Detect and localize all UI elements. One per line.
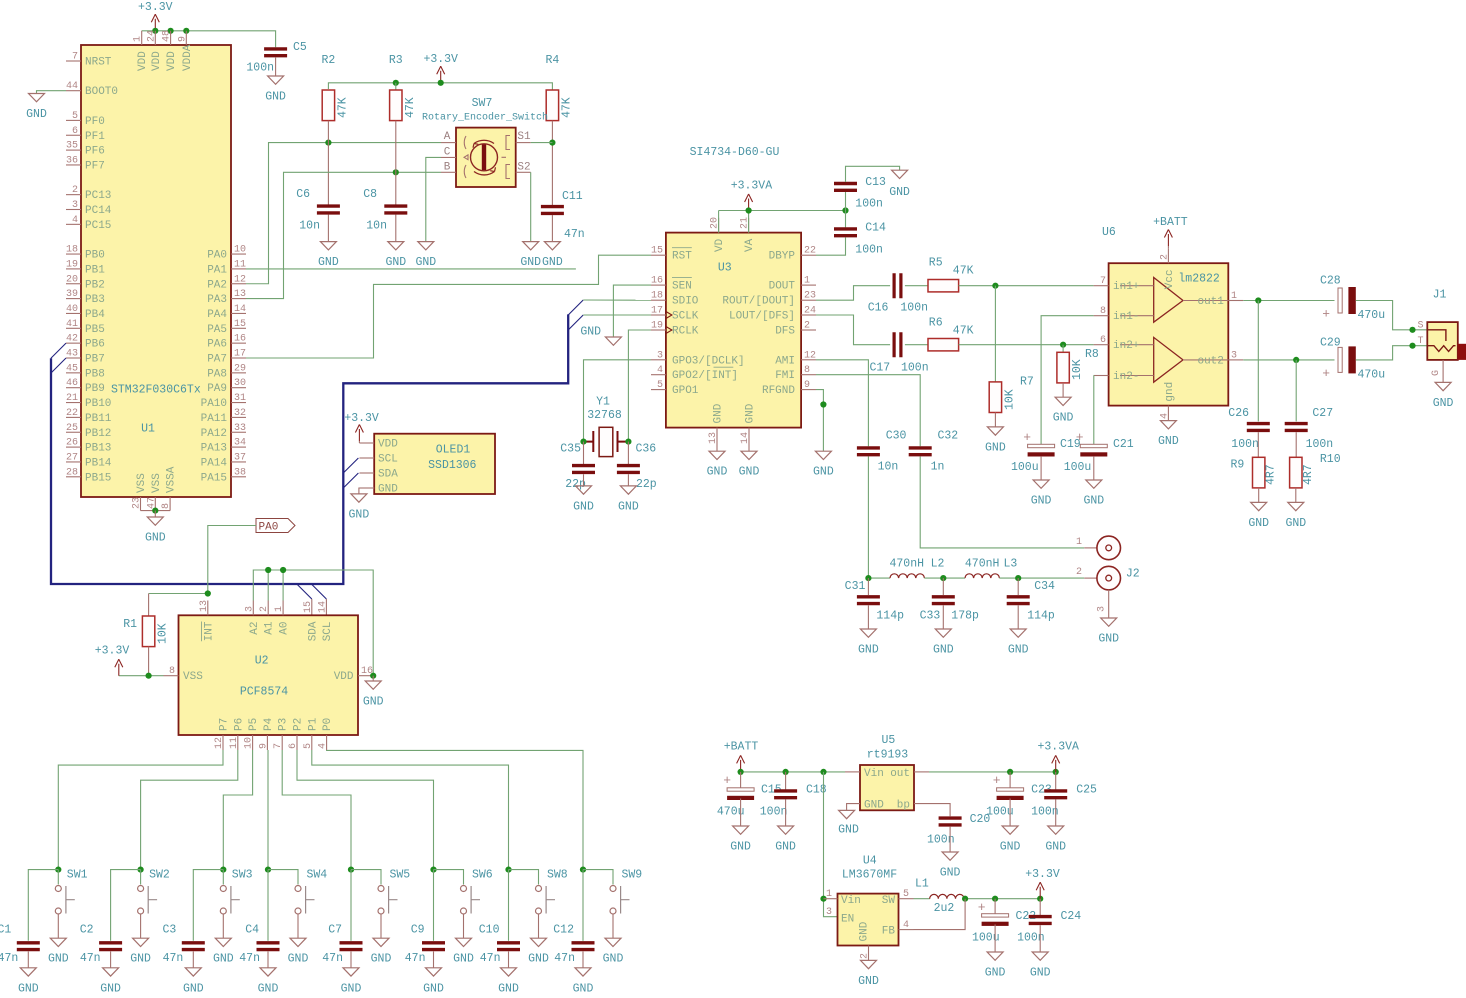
svg-text:+3.3V: +3.3V	[138, 1, 173, 14]
svg-text:B: B	[444, 162, 451, 174]
svg-text:LM3670MF: LM3670MF	[842, 869, 897, 882]
svg-text:SW7: SW7	[472, 97, 493, 110]
U1 pin 21 PB10 (left)	[66, 402, 81, 404]
junction	[625, 439, 631, 445]
svg-text:L3: L3	[1004, 558, 1018, 571]
ground (C24)	[1032, 952, 1048, 960]
svg-text:SW: SW	[882, 895, 896, 907]
svg-text:GND: GND	[498, 982, 519, 995]
svg-text:2: 2	[804, 321, 810, 332]
svg-text:A: A	[444, 131, 451, 143]
svg-text:C32: C32	[938, 429, 959, 442]
svg-text:PF0: PF0	[85, 116, 105, 128]
svg-text:lm2822: lm2822	[1178, 273, 1220, 286]
svg-text:GND: GND	[520, 256, 541, 269]
power flag +3.3VA (U5 out)	[1052, 755, 1060, 772]
svg-text:+: +	[978, 900, 986, 915]
svg-text:100n: 100n	[1031, 805, 1059, 818]
svg-text:PF1: PF1	[85, 131, 105, 143]
U4 pin 4 FB	[899, 929, 914, 931]
svg-text:PA4: PA4	[207, 309, 227, 321]
svg-text:BOOT0: BOOT0	[85, 86, 118, 98]
svg-text:47n: 47n	[564, 228, 585, 241]
svg-text:GND: GND	[603, 953, 624, 966]
power flag +BATT (U5)	[741, 771, 845, 773]
U2 pin 11 P6 (bottom)	[237, 735, 239, 750]
svg-text:GND: GND	[145, 532, 166, 545]
OLED1 pin GND	[359, 487, 374, 489]
resistor R10	[1295, 432, 1297, 457]
svg-text:22: 22	[804, 246, 816, 257]
svg-text:29: 29	[234, 363, 246, 374]
svg-text:23: 23	[132, 497, 143, 509]
svg-text:GND: GND	[889, 186, 910, 199]
svg-text:+: +	[1023, 430, 1031, 445]
wire RCLK to crystal right	[628, 330, 651, 442]
junction	[1037, 896, 1043, 902]
ground (BOOT0)	[37, 91, 67, 94]
svg-text:C10: C10	[479, 924, 500, 937]
svg-text:9: 9	[804, 380, 810, 391]
svg-text:10n: 10n	[299, 220, 320, 233]
junction	[168, 28, 174, 34]
svg-text:G: G	[1431, 370, 1442, 376]
svg-text:C26: C26	[1228, 407, 1249, 420]
svg-text:SW8: SW8	[547, 869, 568, 882]
svg-text:1: 1	[1231, 291, 1237, 302]
svg-text:SW1: SW1	[67, 869, 88, 882]
wire U3 GND13	[716, 443, 718, 452]
svg-text:Rotary_Encoder_Switch: Rotary_Encoder_Switch	[422, 112, 548, 124]
capacitor C8	[384, 206, 407, 213]
svg-text:SW6: SW6	[472, 869, 493, 882]
U3 pin 20 VD (top)	[718, 218, 720, 233]
svg-text:100n: 100n	[760, 805, 788, 818]
svg-text:8: 8	[804, 365, 810, 376]
junction	[152, 28, 158, 34]
capacitor C26	[1257, 301, 1259, 422]
svg-text:43: 43	[66, 349, 78, 360]
U3 pin 3 GPO3/[DCLK] (left)	[651, 359, 666, 361]
SW7 pin A	[441, 142, 456, 144]
U6 pin in2-	[1094, 375, 1109, 377]
ground (SW1)	[50, 938, 66, 946]
svg-text:47n: 47n	[80, 952, 101, 965]
svg-text:VA: VA	[744, 238, 756, 252]
capacitor C9	[422, 943, 445, 950]
U1 pin 28 PB15 (left)	[66, 476, 81, 478]
svg-text:25: 25	[66, 423, 78, 434]
svg-text:U3: U3	[718, 261, 732, 274]
wire +3.3V rail R2-R4	[328, 83, 552, 90]
svg-text:RFGND: RFGND	[762, 385, 795, 397]
svg-text:44: 44	[66, 81, 78, 92]
wire R5 to U6 in1+	[959, 285, 1094, 287]
svg-text:3: 3	[1097, 606, 1108, 612]
svg-text:GND: GND	[213, 953, 234, 966]
U1 pin 30 PA9 (right)	[231, 387, 246, 389]
U2 pin 4 P0 (bottom)	[326, 735, 328, 750]
svg-text:10: 10	[234, 245, 246, 256]
svg-text:4: 4	[318, 743, 329, 749]
U1 pin 31 PA10 (right)	[231, 402, 246, 404]
ground (C34)	[1010, 629, 1026, 637]
regulator U4 box	[838, 894, 899, 946]
svg-text:C24: C24	[1061, 910, 1082, 923]
svg-text:+3.3V: +3.3V	[423, 53, 458, 66]
svg-text:+3.3VA: +3.3VA	[1037, 741, 1079, 754]
capacitor C4	[257, 943, 280, 950]
svg-text:PC15: PC15	[85, 220, 111, 232]
svg-text:PA10: PA10	[201, 398, 227, 410]
junction	[280, 567, 286, 573]
svg-text:R3: R3	[389, 54, 403, 67]
capacitor C13	[845, 192, 847, 227]
svg-text:GND: GND	[1098, 633, 1119, 646]
U1 pin 44 BOOT0 (left)	[66, 90, 81, 92]
power flag +3.3V (rotary)	[437, 66, 445, 83]
svg-text:13: 13	[708, 432, 719, 444]
U1 pin 47 VSS (bottom)	[154, 497, 156, 511]
capacitor C14	[834, 229, 857, 236]
U1 pin 25 PB12 (left)	[66, 431, 81, 433]
svg-text:1: 1	[274, 606, 285, 612]
capacitor C11	[541, 207, 564, 214]
ground (OLED)	[359, 488, 374, 494]
svg-text:16: 16	[234, 334, 246, 345]
svg-text:C36: C36	[636, 443, 657, 456]
wire U2 P2 to switch column	[297, 750, 434, 870]
U1 pin 35 PF6 (left)	[66, 149, 81, 151]
svg-text:C17: C17	[870, 362, 891, 375]
wire C29 to J1 T	[1356, 346, 1428, 360]
svg-text:S: S	[1417, 320, 1423, 331]
svg-text:A0: A0	[279, 621, 291, 634]
wire U6 in1- to C19	[1041, 316, 1094, 445]
wire SW2 node to C2	[111, 870, 141, 941]
U2 pin 8 VSS	[164, 675, 179, 677]
pushbutton SW4	[295, 886, 315, 915]
U1 pin 46 PB9 (left)	[66, 387, 81, 389]
svg-text:PB8: PB8	[85, 368, 105, 380]
U1 pin 7 NRST (left)	[66, 60, 81, 62]
svg-text:C7: C7	[328, 924, 342, 937]
svg-text:4: 4	[1159, 413, 1170, 419]
svg-text:+BATT: +BATT	[724, 741, 759, 754]
svg-text:2: 2	[72, 185, 78, 196]
U2 pin 10 P5 (bottom)	[252, 735, 254, 750]
svg-text:47K: 47K	[337, 97, 350, 118]
svg-text:C13: C13	[865, 176, 886, 189]
wire out2 to C29/J1	[1243, 359, 1334, 361]
capacitor C15 (polarized)	[740, 772, 742, 788]
svg-text:VSS: VSS	[183, 671, 203, 683]
U3 pin 1 DOUT (right)	[801, 284, 816, 286]
capacitor C29 (polarized)	[1338, 347, 1342, 372]
pushbutton SW2	[138, 886, 158, 915]
wire SW6 node to switch	[434, 870, 464, 885]
ground (C6)	[320, 242, 336, 250]
svg-text:SDIO: SDIO	[672, 296, 699, 308]
svg-text:AMI: AMI	[775, 355, 795, 367]
svg-text:47K: 47K	[404, 97, 417, 118]
pushbutton SW1	[55, 886, 75, 915]
svg-text:10: 10	[244, 737, 255, 749]
capacitor C23 (polarized)	[1009, 772, 1011, 788]
svg-text:SW2: SW2	[149, 869, 170, 882]
U3 pin 2 DFS (right)	[801, 329, 816, 331]
svg-text:GND: GND	[580, 325, 601, 338]
svg-text:20: 20	[66, 274, 78, 285]
svg-text:P3: P3	[278, 718, 290, 731]
svg-text:U5: U5	[881, 734, 895, 747]
svg-text:GND: GND	[618, 500, 639, 513]
wire +BATT branch to U4	[824, 772, 838, 917]
svg-text:3: 3	[1231, 350, 1237, 361]
svg-text:C25: C25	[1076, 783, 1097, 796]
wire DBYP to C14	[816, 238, 846, 256]
svg-text:2: 2	[259, 606, 270, 612]
U1 pin 40 PB4 (left)	[66, 312, 81, 314]
svg-text:46: 46	[66, 378, 78, 389]
svg-text:1: 1	[804, 276, 810, 287]
ground (RFGND)	[815, 451, 831, 459]
U1 pin 27 PB14 (left)	[66, 461, 81, 463]
svg-text:C14: C14	[865, 221, 886, 234]
svg-text:in1-: in1-	[1113, 311, 1139, 323]
svg-text:+3.3V: +3.3V	[95, 645, 130, 658]
svg-text:17: 17	[651, 306, 663, 317]
svg-text:3: 3	[826, 907, 832, 918]
svg-text:GND: GND	[940, 867, 961, 880]
junction	[1255, 297, 1261, 303]
svg-text:2u2: 2u2	[934, 902, 955, 915]
svg-text:47n: 47n	[163, 952, 184, 965]
svg-text:PB3: PB3	[85, 294, 105, 306]
svg-text:100n: 100n	[246, 62, 274, 75]
U1 pin 24 VDD (top)	[154, 31, 156, 45]
svg-text:48: 48	[162, 30, 173, 42]
junction	[348, 867, 354, 873]
svg-text:+: +	[1076, 430, 1084, 445]
wire PA3 to R3/SW7-B net	[246, 172, 441, 298]
svg-text:10n: 10n	[366, 220, 387, 233]
ground (C11)	[544, 242, 560, 250]
svg-text:C9: C9	[411, 924, 425, 937]
svg-text:GND: GND	[933, 644, 954, 657]
svg-text:P1: P1	[307, 717, 319, 731]
svg-text:GND: GND	[730, 841, 751, 854]
U3 pin 23 ROUT/[DOUT] (right)	[801, 299, 816, 301]
bus entry U2 SCL	[311, 584, 326, 599]
svg-text:4: 4	[903, 920, 909, 931]
svg-text:10K: 10K	[157, 623, 170, 644]
svg-text:6: 6	[288, 743, 299, 749]
svg-text:C34: C34	[1034, 580, 1055, 593]
svg-text:J1: J1	[1433, 289, 1447, 302]
svg-text:2: 2	[860, 953, 871, 959]
svg-text:PF6: PF6	[85, 146, 105, 158]
svg-text:GND: GND	[739, 466, 760, 479]
svg-text:+BATT: +BATT	[1153, 216, 1188, 229]
svg-text:PC14: PC14	[85, 205, 112, 217]
ground (R9)	[1251, 502, 1267, 510]
svg-text:6: 6	[1100, 335, 1106, 346]
op-amp triangle 2	[1154, 337, 1183, 382]
svg-text:33: 33	[234, 423, 246, 434]
svg-text:Vin: Vin	[864, 768, 884, 780]
svg-text:in2+: in2+	[1113, 340, 1139, 352]
inductor L2	[890, 574, 924, 578]
svg-text:+3.3VA: +3.3VA	[731, 179, 773, 192]
capacitor C1	[17, 943, 40, 950]
U1 pin 6 PF1 (left)	[66, 134, 81, 136]
svg-text:37: 37	[234, 452, 246, 463]
junction	[146, 673, 152, 679]
svg-text:47n: 47n	[554, 952, 575, 965]
svg-text:14: 14	[740, 432, 751, 444]
svg-text:PB5: PB5	[85, 324, 105, 336]
svg-text:47n: 47n	[405, 952, 426, 965]
svg-text:35: 35	[66, 141, 78, 152]
svg-text:Vin: Vin	[841, 895, 861, 907]
svg-text:GND: GND	[1053, 412, 1074, 425]
svg-text:100n: 100n	[1306, 438, 1334, 451]
svg-text:32768: 32768	[587, 409, 622, 422]
svg-text:GND: GND	[713, 403, 725, 423]
svg-text:C35: C35	[560, 443, 581, 456]
svg-text:gnd: gnd	[1164, 382, 1176, 402]
svg-text:C5: C5	[293, 41, 307, 54]
bus entry OLED SCL	[343, 458, 358, 473]
svg-text:SCL: SCL	[322, 621, 334, 641]
wire SW3 node to C3	[193, 870, 223, 941]
svg-text:GND: GND	[18, 982, 39, 995]
U6 pin 2 Vcc (top)	[1167, 248, 1169, 263]
svg-text:A2: A2	[249, 621, 261, 634]
U3 pin 12 AMI (right)	[801, 359, 816, 361]
svg-text:27: 27	[66, 452, 78, 463]
ground (C31)	[860, 629, 876, 637]
U6 pin 7 in1+	[1094, 285, 1109, 287]
svg-text:C3: C3	[162, 924, 176, 937]
op-amp triangle 1	[1154, 278, 1183, 323]
svg-text:41: 41	[66, 319, 78, 330]
wire R2 bottom to C6	[327, 121, 329, 205]
J1 pin G	[1442, 360, 1444, 383]
svg-text:1: 1	[826, 889, 832, 900]
U2 pin 16 VDD	[358, 675, 373, 677]
svg-text:PB4: PB4	[85, 309, 105, 321]
U6 pin 4 gnd (bottom)	[1167, 406, 1169, 421]
svg-text:47K: 47K	[953, 264, 974, 277]
svg-text:14: 14	[317, 601, 328, 613]
svg-text:GND: GND	[573, 982, 594, 995]
svg-text:12: 12	[804, 350, 816, 361]
svg-text:GND: GND	[1158, 435, 1179, 448]
svg-text:P7: P7	[219, 718, 231, 731]
ground (SW6)	[456, 938, 472, 946]
U1 pin 19 PB1 (left)	[66, 268, 81, 270]
wire A2/A1/A0 header net	[253, 570, 373, 676]
U6 pin 6 in2+	[1094, 344, 1109, 346]
junction	[1053, 769, 1059, 775]
power flag +3.3V (U4 out)	[1036, 882, 1044, 899]
svg-text:PA2: PA2	[207, 279, 227, 291]
svg-text:36: 36	[66, 155, 78, 166]
resistor R1	[149, 593, 208, 595]
svg-text:out: out	[890, 768, 910, 780]
svg-text:GND: GND	[1248, 517, 1269, 530]
wire L2 to C33 node	[924, 577, 965, 579]
junction	[265, 867, 271, 873]
svg-text:16: 16	[651, 276, 663, 287]
resistor R9	[1257, 432, 1259, 457]
ground (U3 SEN)	[613, 285, 651, 337]
bus entry U2 SDA	[297, 584, 312, 599]
U1 pin 10 PA0 (right)	[231, 253, 246, 255]
U1 pin 33 PA12 (right)	[231, 431, 246, 433]
svg-text:1: 1	[133, 36, 144, 42]
U2 pin 9 P4 (bottom)	[266, 735, 268, 750]
wire L1 to +3.3V rail	[964, 898, 1040, 900]
svg-text:+3.3V: +3.3V	[1025, 868, 1060, 881]
U1 pin 38 PA15 (right)	[231, 476, 246, 478]
junction	[746, 207, 752, 213]
ground (C36)	[620, 486, 636, 494]
svg-text:47: 47	[146, 497, 157, 509]
junction	[325, 140, 331, 146]
capacitor C17	[894, 332, 901, 357]
wire SW8 node to C10	[508, 870, 510, 941]
capacitor C30	[857, 448, 880, 455]
svg-text:7: 7	[273, 743, 284, 749]
svg-text:PF7: PF7	[85, 160, 105, 172]
junction	[842, 207, 848, 213]
svg-text:30: 30	[234, 378, 246, 389]
U6 pin 3 out2	[1228, 359, 1243, 361]
svg-text:RST: RST	[672, 251, 692, 263]
svg-text:PA5: PA5	[207, 324, 227, 336]
ground (SW3)	[215, 938, 231, 946]
svg-text:PB2: PB2	[85, 279, 105, 291]
junction	[205, 590, 211, 596]
U4 pin 1 Vin	[824, 898, 838, 900]
U3 pin 21 VA (top)	[748, 218, 750, 233]
junction	[220, 867, 226, 873]
svg-text:4: 4	[657, 365, 663, 376]
svg-text:PA8: PA8	[207, 368, 227, 380]
ground (C4)	[260, 968, 276, 976]
svg-text:+: +	[1322, 307, 1330, 322]
wire SW5 node to switch	[351, 870, 381, 885]
svg-text:GND: GND	[528, 953, 549, 966]
svg-text:PA12: PA12	[201, 428, 227, 440]
capacitor C24	[1039, 899, 1041, 915]
ground (C19)	[1033, 480, 1049, 488]
svg-text:GND: GND	[858, 975, 879, 988]
svg-text:114p: 114p	[876, 609, 904, 622]
junction	[992, 896, 998, 902]
svg-text:R9: R9	[1231, 458, 1245, 471]
wire FMI to C32	[816, 375, 920, 447]
svg-text:470nH: 470nH	[890, 558, 925, 571]
junction	[940, 575, 946, 581]
svg-text:4R7: 4R7	[1265, 464, 1278, 485]
SW7 pin C	[441, 156, 456, 158]
wire C16 to R5	[905, 285, 928, 287]
svg-text:7: 7	[72, 52, 78, 63]
